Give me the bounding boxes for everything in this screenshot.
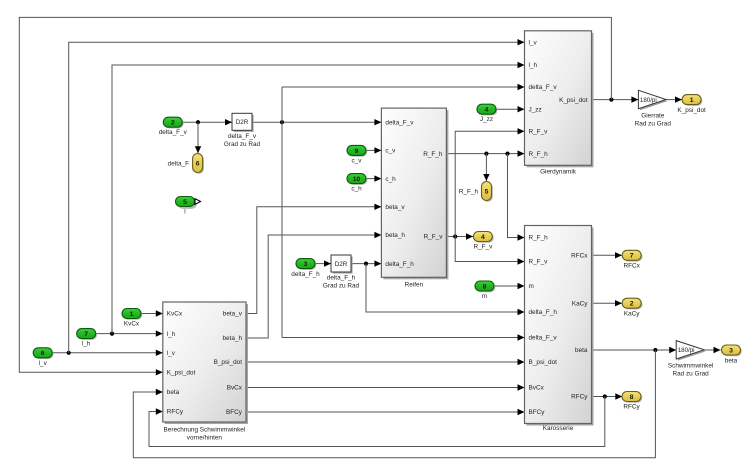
svg-text:8: 8: [630, 394, 634, 401]
svg-text:Grad zu Rad: Grad zu Rad: [323, 283, 360, 290]
svg-text:R_F_h: R_F_h: [529, 235, 549, 242]
svg-text:delta_F_h: delta_F_h: [529, 309, 558, 316]
svg-text:10: 10: [353, 176, 361, 183]
wire beta: Karosserie to gain Schwimmwinkel: [592, 347, 677, 353]
wire R_F_h branch down to outport 5: [483, 154, 489, 181]
inport 5 l (unconnected): [176, 197, 201, 216]
svg-text:R_F_v: R_F_v: [424, 234, 444, 241]
D2R converter delta_F_h Grad zu Rad: [323, 255, 360, 290]
svg-text:m: m: [529, 283, 534, 290]
svg-text:vorne/hinten: vorne/hinten: [187, 435, 223, 442]
wire m: inport 8 to Karosserie m input: [494, 283, 525, 289]
svg-text:BvCx: BvCx: [529, 385, 545, 392]
wire beta: gain to outport 3: [704, 347, 720, 353]
svg-text:180/pi: 180/pi: [678, 347, 695, 354]
wire R_F_h branch to Karosserie R_F_h input: [508, 154, 525, 241]
svg-text:6: 6: [41, 350, 45, 357]
svg-text:BvCx: BvCx: [227, 385, 243, 392]
svg-text:B_psi_dot: B_psi_dot: [214, 359, 243, 366]
svg-text:RFCy: RFCy: [167, 409, 184, 416]
svg-text:BFCy: BFCy: [529, 409, 546, 416]
wire R_F_h: Reifen output to Gierdynamik R_F_h input: [446, 150, 524, 156]
svg-text:B_psi_dot: B_psi_dot: [529, 359, 558, 366]
svg-text:K_psi_dot: K_psi_dot: [167, 370, 196, 377]
outport 6 delta_F: [168, 154, 204, 174]
svg-text:l_v: l_v: [529, 39, 538, 46]
svg-text:l_h: l_h: [167, 331, 176, 338]
wire J_zz: inport 4 to Gierdynamik J_zz input: [496, 106, 525, 112]
wire B_psi_dot: Berechnung to Karosserie B_psi_dot input: [246, 359, 525, 365]
svg-text:beta_h: beta_h: [385, 232, 405, 239]
svg-text:l_h: l_h: [529, 62, 538, 69]
svg-text:7: 7: [84, 331, 88, 338]
svg-text:9: 9: [355, 148, 359, 155]
svg-text:l_h: l_h: [82, 341, 91, 348]
svg-text:5: 5: [183, 199, 187, 206]
outport 3 beta: [722, 345, 742, 364]
wire R_F_v branch up to Gierdynamik R_F_v input: [455, 128, 524, 236]
svg-text:3: 3: [304, 261, 308, 268]
svg-text:R_F_h: R_F_h: [423, 151, 443, 158]
svg-text:K_psi_dot: K_psi_dot: [677, 107, 706, 114]
outport 1 K_psi_dot: [677, 95, 706, 114]
svg-text:delta_F_v: delta_F_v: [385, 119, 414, 126]
wire beta_v: Berechnung to Reifen beta_v input: [246, 204, 381, 314]
wire delta_F_v deg: inport 2 to D2R: [183, 119, 233, 125]
svg-text:180/pi: 180/pi: [640, 97, 657, 104]
svg-text:8: 8: [483, 283, 487, 290]
outport 4 R_F_v: [473, 232, 493, 251]
gain 180/pi Gierrate Rad zu Grad: [635, 90, 672, 127]
outport 5 R_F_h: [459, 182, 493, 202]
wire gain Gierrate output to outport 1: [666, 96, 682, 102]
svg-text:delta_F_h: delta_F_h: [385, 261, 414, 268]
svg-text:RFCy: RFCy: [623, 404, 640, 411]
svg-text:Rad zu Grad: Rad zu Grad: [635, 121, 672, 128]
inport 8 m: [475, 281, 495, 300]
svg-text:J_zz: J_zz: [529, 106, 542, 113]
wire delta_F_v rad to Karosserie delta_F_v input: [282, 334, 525, 340]
wire delta_F_v branch down to outport 6 delta_F: [195, 122, 201, 153]
svg-text:beta_v: beta_v: [223, 311, 243, 318]
svg-text:l_v: l_v: [39, 360, 48, 367]
svg-text:5: 5: [485, 188, 489, 195]
subsystem block Reifen: [381, 108, 448, 288]
svg-text:4: 4: [481, 234, 485, 241]
svg-text:delta_F_v: delta_F_v: [529, 335, 558, 342]
svg-text:beta: beta: [575, 347, 588, 354]
svg-text:c_v: c_v: [352, 157, 363, 164]
svg-text:2: 2: [171, 120, 175, 127]
inport 9 c_v: [347, 145, 367, 164]
svg-text:4: 4: [485, 107, 489, 114]
svg-text:BFCy: BFCy: [226, 409, 243, 416]
svg-text:Rad zu Grad: Rad zu Grad: [672, 371, 709, 378]
svg-text:R_F_h: R_F_h: [459, 188, 479, 195]
svg-text:KaCy: KaCy: [572, 300, 588, 307]
svg-text:1: 1: [130, 311, 134, 318]
wire R_F_v branch down to Karosserie R_F_v input: [455, 237, 524, 265]
svg-text:KaCy: KaCy: [624, 310, 640, 317]
svg-text:RFCx: RFCx: [571, 253, 588, 260]
svg-text:beta: beta: [725, 357, 738, 364]
wire delta_F_v rad to Gierdynamik delta_F_v input: [282, 84, 525, 90]
wire K_psi_dot: Gierdynamik output to gain: [592, 96, 639, 102]
D2R converter delta_F_v Grad zu Rad: [224, 113, 261, 148]
svg-text:l: l: [184, 209, 185, 216]
wire K_psi_dot feedback loop to Berechnung K_psi_dot input: [19, 17, 611, 375]
svg-text:Gierdynamik: Gierdynamik: [540, 169, 577, 176]
svg-text:Schwimmwinkel: Schwimmwinkel: [668, 363, 713, 370]
subsystem block Berechnung Schwimmwinkel vorne/hinten: [163, 302, 248, 442]
inport 6 l_v: [33, 348, 53, 367]
svg-text:l_v: l_v: [167, 350, 176, 357]
svg-text:R_F_v: R_F_v: [473, 244, 493, 251]
svg-text:delta_F_v: delta_F_v: [529, 84, 558, 91]
wire beta_h: Berechnung to Reifen beta_h input: [246, 232, 381, 338]
svg-text:c_v: c_v: [385, 148, 396, 155]
wire l_h branch up to Gierdynamik l_h input: [112, 62, 525, 334]
wire BFCy: Berechnung to Karosserie BFCy input: [246, 409, 525, 415]
wire delta_F_v rad vertical branch: [281, 87, 283, 338]
svg-text:delta_F_v: delta_F_v: [159, 129, 188, 136]
svg-text:c_h: c_h: [385, 176, 396, 183]
svg-text:beta_h: beta_h: [222, 335, 242, 342]
outport 2 KaCy: [622, 298, 642, 317]
svg-text:D2R: D2R: [335, 261, 348, 268]
inport 4 J_zz: [477, 104, 497, 123]
wire KvCx: inport 1 to Berechnung KvCx input: [141, 310, 163, 316]
svg-text:Karosserie: Karosserie: [543, 425, 574, 432]
subsystem block Gierdynamik: [525, 31, 594, 176]
wire delta_F_h rad branch to Karosserie delta_F_h input: [366, 264, 525, 316]
gain 180/pi Schwimmwinkel Rad zu Grad: [668, 341, 713, 378]
wire delta_F_v rad: D2R to Reifen delta_F_v input: [252, 119, 381, 125]
wire l_v branch up to Gierdynamik l_v input: [69, 39, 525, 353]
svg-text:Gierrate: Gierrate: [641, 113, 665, 120]
wire l_h: inport 7 to Berechnung l_h input: [96, 330, 163, 336]
wire KaCy: Karosserie to outport 2: [592, 300, 623, 306]
svg-text:delta_F_v: delta_F_v: [228, 133, 257, 140]
svg-text:R_F_v: R_F_v: [529, 129, 549, 136]
svg-text:3: 3: [729, 347, 733, 354]
svg-text:KvCx: KvCx: [124, 321, 140, 328]
outport 8 RFCy: [622, 392, 642, 411]
wire R_F_v: Reifen output to outport 4: [446, 233, 473, 239]
svg-text:J_zz: J_zz: [480, 116, 493, 123]
svg-text:KvCx: KvCx: [167, 311, 183, 318]
svg-text:beta_v: beta_v: [385, 204, 405, 211]
inport 2 delta_F_v: [159, 117, 188, 136]
svg-text:7: 7: [630, 253, 634, 260]
svg-text:R_F_h: R_F_h: [529, 151, 549, 158]
inport 10 c_h: [347, 174, 367, 193]
svg-text:delta_F_h: delta_F_h: [327, 275, 356, 282]
wire RFCy feedback loop to Berechnung RFCy input: [149, 397, 605, 447]
svg-text:RFCy: RFCy: [571, 394, 588, 401]
svg-text:R_F_v: R_F_v: [529, 259, 549, 266]
wire beta feedback loop to Berechnung beta input: [133, 350, 655, 458]
svg-text:D2R: D2R: [236, 119, 249, 126]
svg-text:delta_F_h: delta_F_h: [291, 271, 320, 278]
wire delta_F_h deg: inport 3 to D2R: [316, 260, 332, 266]
outport 7 RFCx: [622, 250, 642, 269]
wire l_v: inport 6 to Berechnung l_v input: [52, 350, 163, 356]
inport 7 l_h: [77, 329, 97, 348]
svg-text:delta_F: delta_F: [168, 160, 189, 167]
wire BvCx: Berechnung to Karosserie BvCx input: [246, 384, 525, 390]
svg-text:beta: beta: [167, 389, 180, 396]
wire c_h: inport 10 to Reifen c_h input: [366, 175, 381, 181]
wire delta_F_h rad: D2R to Reifen delta_F_h input: [351, 260, 381, 266]
svg-text:1: 1: [690, 97, 694, 104]
inport 3 delta_F_h: [291, 259, 320, 278]
svg-text:RFCx: RFCx: [624, 262, 641, 269]
svg-text:Reifen: Reifen: [405, 282, 424, 289]
svg-text:K_psi_dot: K_psi_dot: [559, 97, 588, 104]
subsystem block Karosserie: [525, 226, 594, 433]
wire RFCy: Karosserie to outport 8: [592, 393, 623, 399]
wire RFCx: Karosserie to outport 7: [592, 252, 623, 258]
svg-text:Grad zu Rad: Grad zu Rad: [224, 141, 261, 148]
inport 1 KvCx: [122, 309, 142, 328]
wire c_v: inport 9 to Reifen c_v input: [366, 147, 381, 153]
svg-text:m: m: [482, 293, 487, 300]
svg-text:2: 2: [630, 301, 634, 308]
svg-text:c_h: c_h: [351, 186, 362, 193]
svg-text:6: 6: [196, 160, 200, 167]
svg-text:Berechnung Schwimmwinkel: Berechnung Schwimmwinkel: [164, 427, 246, 434]
